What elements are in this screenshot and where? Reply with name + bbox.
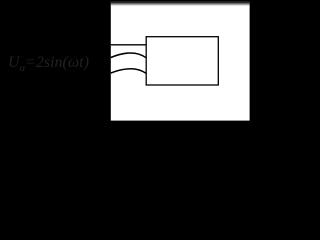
white panel background: [111, 2, 250, 121]
arc wire 2: [111, 69, 146, 74]
box (device): [146, 37, 218, 85]
formula text: source voltage expression: [8, 54, 89, 74]
figure panel: [0, 0, 303, 135]
arc wire 1: [111, 53, 146, 58]
panel top soft edge: [111, 2, 250, 6]
wire (straight lead): [111, 44, 146, 46]
